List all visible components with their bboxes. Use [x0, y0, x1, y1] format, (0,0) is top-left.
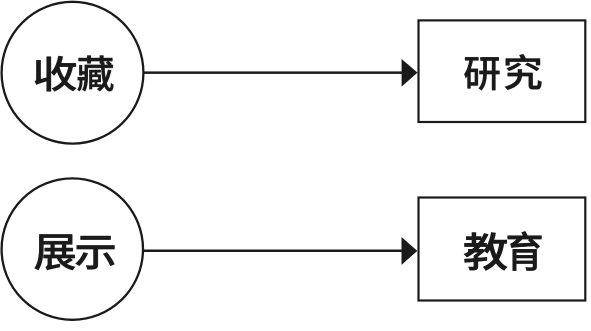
- wire: arrow shaft 收藏→研究: [144, 71, 404, 74]
- label 展示: [35, 234, 115, 270]
- label 教育: [464, 231, 541, 270]
- process box: 教育: [419, 198, 586, 301]
- arrowhead into 教育 box: [402, 237, 418, 265]
- arrowhead into 研究 box: [402, 59, 418, 87]
- node circle: 展示: [2, 178, 143, 319]
- wire: arrow shaft 展示→教育: [143, 250, 403, 253]
- label 研究: [464, 54, 541, 90]
- label 收藏: [35, 55, 114, 91]
- node circle: 收藏: [2, 2, 144, 144]
- process box: 研究: [419, 20, 586, 122]
